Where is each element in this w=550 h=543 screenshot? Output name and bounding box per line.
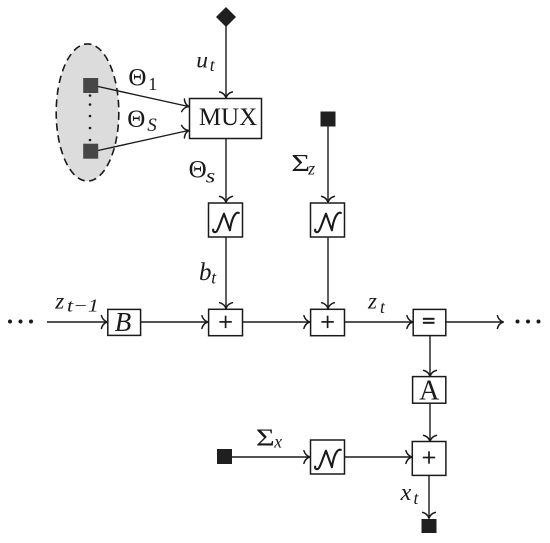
svg-text:Θ: Θ [127, 106, 145, 133]
svg-text:A: A [419, 376, 440, 407]
svg-text:Σ: Σ [256, 425, 275, 451]
svg-text:s: s [206, 165, 215, 187]
svg-text:t: t [380, 297, 386, 317]
svg-text:z: z [307, 158, 315, 178]
svg-text:z: z [367, 289, 377, 314]
svg-text:Θ: Θ [128, 64, 146, 91]
svg-text:S: S [147, 115, 157, 136]
svg-text:t: t [210, 55, 216, 75]
svg-text:b: b [199, 259, 212, 286]
svg-text:B: B [115, 307, 132, 337]
svg-text:t: t [211, 267, 217, 287]
svg-text:x: x [400, 480, 412, 506]
svg-text:t−1: t−1 [67, 296, 99, 315]
svg-text:Θ: Θ [189, 157, 207, 184]
svg-text:z: z [54, 289, 64, 314]
svg-text:t: t [414, 488, 420, 508]
svg-text:1: 1 [148, 74, 157, 94]
svg-text:x: x [273, 432, 282, 452]
svg-text:MUX: MUX [199, 104, 257, 131]
svg-text:u: u [196, 48, 208, 74]
